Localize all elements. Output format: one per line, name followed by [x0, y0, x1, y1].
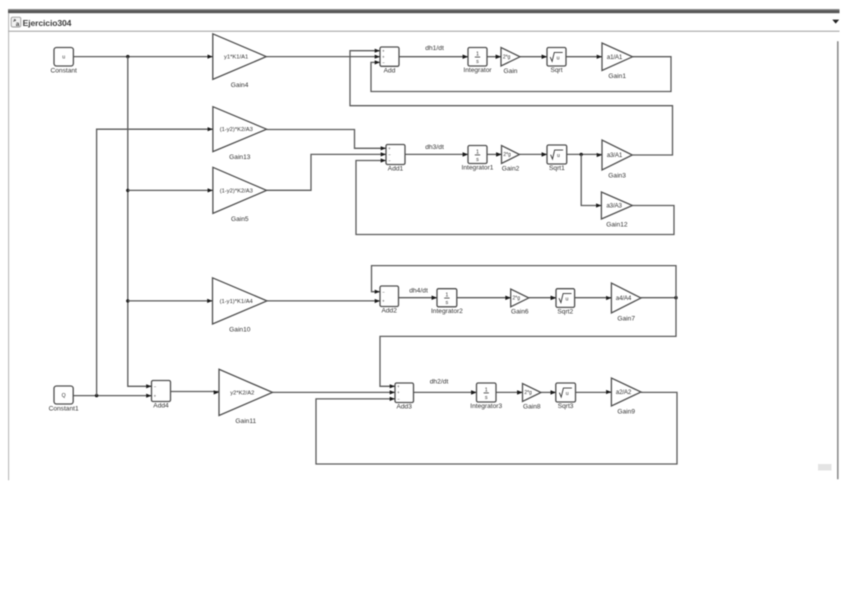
svg-text:a1/A1: a1/A1	[607, 54, 623, 61]
svg-text:Gain9: Gain9	[617, 408, 635, 415]
svg-text:dh4/dt: dh4/dt	[409, 288, 428, 295]
svg-text:Q: Q	[62, 393, 66, 399]
svg-text:Add4: Add4	[153, 403, 169, 410]
svg-text:Gain5: Gain5	[231, 216, 249, 223]
svg-text:+: +	[154, 393, 157, 398]
svg-text:−: −	[382, 289, 385, 294]
svg-text:2*g: 2*g	[503, 55, 511, 61]
svg-text:a3/A3: a3/A3	[606, 203, 622, 210]
svg-text:+: +	[388, 146, 391, 151]
svg-text:s: s	[476, 59, 479, 65]
svg-text:Gain7: Gain7	[617, 315, 635, 322]
svg-text:Constant: Constant	[50, 68, 77, 75]
svg-text:Gain11: Gain11	[235, 418, 256, 425]
svg-text:Gain4: Gain4	[231, 82, 249, 89]
svg-text:1: 1	[476, 52, 479, 58]
svg-text:Gain6: Gain6	[511, 309, 529, 316]
svg-text:−: −	[154, 384, 157, 389]
svg-text:+: +	[397, 390, 400, 395]
svg-text:Gain10: Gain10	[229, 326, 251, 333]
svg-text:Gain12: Gain12	[606, 221, 628, 228]
svg-text:s: s	[476, 157, 479, 163]
svg-text:+: +	[382, 299, 385, 304]
svg-text:Integrator3: Integrator3	[470, 403, 502, 410]
svg-text:a2/A2: a2/A2	[616, 389, 632, 396]
svg-text:−: −	[382, 60, 385, 65]
svg-text:(1-y2)*K2/A3: (1-y2)*K2/A3	[220, 188, 253, 194]
svg-text:Integrator2: Integrator2	[431, 308, 463, 315]
svg-text:Sqrt1: Sqrt1	[549, 165, 565, 172]
svg-text:+: +	[382, 48, 385, 53]
svg-text:a3/A1: a3/A1	[607, 152, 623, 159]
svg-text:(1-y1)*K1/A4: (1-y1)*K1/A4	[220, 299, 254, 305]
svg-text:Sqrt: Sqrt	[550, 67, 562, 74]
svg-text:1: 1	[485, 387, 488, 393]
svg-text:−: −	[388, 152, 391, 157]
svg-text:−: −	[388, 158, 391, 163]
svg-text:Gain13: Gain13	[229, 154, 251, 161]
svg-text:u: u	[565, 297, 568, 303]
svg-text:Gain3: Gain3	[608, 172, 626, 179]
svg-text:−: −	[397, 397, 400, 402]
svg-text:2*g: 2*g	[524, 390, 532, 396]
svg-text:dh3/dt: dh3/dt	[425, 144, 444, 151]
svg-text:y2*K2/A2: y2*K2/A2	[230, 390, 254, 396]
svg-text:Add: Add	[384, 68, 396, 75]
svg-text:Gain8: Gain8	[523, 403, 541, 410]
svg-text:u: u	[566, 391, 569, 397]
svg-text:u: u	[62, 55, 65, 61]
svg-text:s: s	[485, 395, 488, 401]
svg-text:Gain2: Gain2	[502, 165, 520, 172]
svg-text:+: +	[397, 384, 400, 389]
svg-text:a: a	[16, 21, 20, 28]
svg-text:Add1: Add1	[388, 166, 404, 173]
svg-text:Add2: Add2	[381, 308, 397, 315]
svg-text:u: u	[557, 153, 560, 159]
svg-text:(1-y2)*K2/A3: (1-y2)*K2/A3	[220, 127, 253, 133]
svg-text:Add3: Add3	[396, 404, 412, 411]
svg-text:u: u	[557, 55, 560, 61]
svg-text:+: +	[382, 54, 385, 59]
svg-text:Gain1: Gain1	[608, 73, 626, 80]
svg-text:dh1/dt: dh1/dt	[425, 45, 444, 52]
svg-text:1: 1	[476, 149, 479, 155]
svg-text:s: s	[446, 300, 449, 306]
svg-text:Integrator1: Integrator1	[462, 165, 494, 172]
svg-text:y1*K1/A1: y1*K1/A1	[224, 55, 248, 61]
svg-text:Constant1: Constant1	[49, 406, 79, 413]
svg-text:2*g: 2*g	[513, 296, 521, 302]
svg-text:Integrator: Integrator	[463, 67, 492, 74]
svg-text:a4/A4: a4/A4	[616, 295, 632, 302]
svg-text:Gain: Gain	[504, 68, 518, 75]
svg-text:dh2/dt: dh2/dt	[430, 379, 449, 386]
svg-text:Ejercicio304: Ejercicio304	[23, 18, 72, 28]
svg-text:Sqrt3: Sqrt3	[558, 403, 574, 410]
svg-text:Sqrt2: Sqrt2	[557, 309, 573, 316]
svg-text:2*g: 2*g	[503, 152, 511, 158]
